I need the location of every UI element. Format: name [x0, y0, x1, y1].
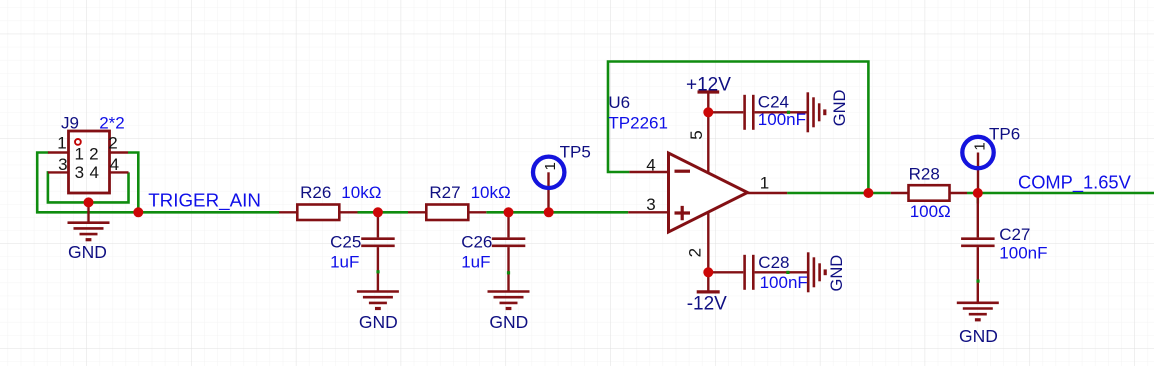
svg-text:TP6: TP6 [989, 125, 1020, 144]
svg-text:GND: GND [831, 89, 849, 126]
svg-text:R26: R26 [300, 183, 331, 202]
svg-text:4: 4 [89, 163, 98, 182]
svg-text:10kΩ: 10kΩ [471, 183, 511, 202]
svg-text:1: 1 [74, 145, 83, 164]
svg-text:1uF: 1uF [330, 253, 359, 272]
svg-text:4: 4 [110, 155, 119, 174]
svg-text:C25: C25 [330, 233, 361, 252]
svg-text:2*2: 2*2 [99, 113, 125, 132]
svg-text:TRIGER_AIN: TRIGER_AIN [148, 189, 261, 211]
svg-text:GND: GND [489, 312, 528, 332]
svg-text:U6: U6 [608, 93, 630, 112]
svg-text:1: 1 [57, 133, 66, 152]
svg-text:J9: J9 [61, 113, 79, 132]
svg-text:4: 4 [646, 156, 655, 175]
svg-text:C26: C26 [461, 233, 492, 252]
svg-text:2: 2 [89, 145, 98, 164]
svg-text:3: 3 [75, 163, 84, 182]
svg-text:TP5: TP5 [560, 142, 591, 161]
svg-text:100nF: 100nF [760, 273, 808, 292]
svg-text:C27: C27 [999, 225, 1030, 244]
svg-text:-12V: -12V [687, 294, 727, 315]
svg-text:10kΩ: 10kΩ [341, 183, 381, 202]
svg-text:100nF: 100nF [758, 110, 806, 129]
svg-text:2: 2 [686, 248, 705, 257]
svg-text:+12V: +12V [686, 75, 731, 96]
svg-text:5: 5 [687, 130, 706, 139]
svg-text:100Ω: 100Ω [910, 202, 951, 221]
svg-text:2: 2 [108, 133, 117, 152]
svg-text:C28: C28 [758, 253, 789, 272]
svg-text:1: 1 [971, 142, 988, 150]
svg-text:TP2261: TP2261 [608, 114, 668, 133]
svg-text:1: 1 [542, 162, 559, 170]
svg-text:GND: GND [68, 242, 107, 262]
svg-text:GND: GND [828, 255, 846, 292]
svg-text:R28: R28 [909, 165, 940, 184]
svg-text:COMP_1.65V: COMP_1.65V [1018, 172, 1132, 194]
svg-text:1uF: 1uF [461, 253, 490, 272]
svg-text:GND: GND [959, 326, 998, 346]
svg-text:GND: GND [359, 312, 398, 332]
svg-text:3: 3 [646, 195, 655, 214]
svg-text:C24: C24 [758, 92, 789, 111]
svg-text:3: 3 [58, 155, 67, 174]
svg-text:R27: R27 [429, 183, 460, 202]
svg-text:1: 1 [760, 174, 769, 193]
svg-text:100nF: 100nF [999, 243, 1047, 262]
